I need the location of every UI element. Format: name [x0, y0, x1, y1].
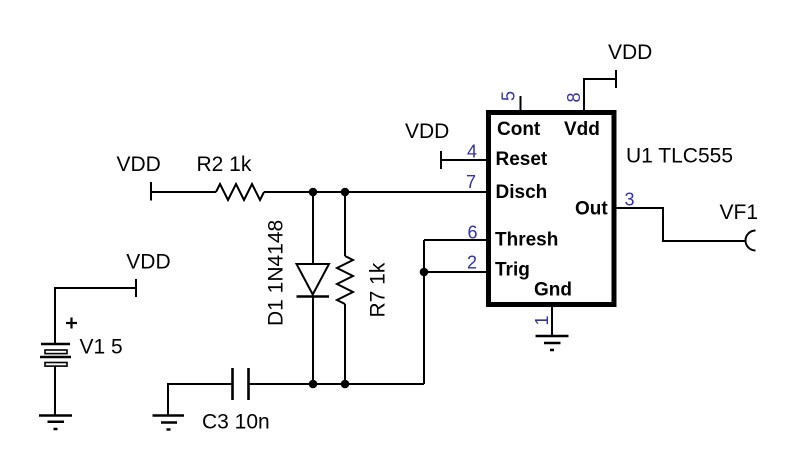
svg-text:Cont: Cont: [497, 119, 541, 140]
power VDD terminal (battery): [126, 251, 170, 298]
wire diode cathode to bottom rail: [312, 297, 314, 385]
svg-text:Trig: Trig: [495, 260, 530, 281]
node junction R7 top: [341, 188, 350, 197]
ground (battery): [39, 416, 72, 430]
power VDD terminal (Reset): [405, 120, 449, 169]
svg-text:Vdd: Vdd: [564, 119, 600, 140]
ground (C3): [153, 416, 185, 430]
wire battery bottom to ground: [54, 366, 56, 415]
wire Thresh pin 6: [424, 239, 486, 241]
resistor R7: [337, 256, 390, 318]
node junction Trig: [420, 268, 429, 277]
wire to diode anode: [312, 192, 314, 264]
svg-text:1: 1: [532, 315, 552, 325]
power VDD terminal (left of R2): [117, 153, 161, 201]
wire bottom rail up to Thresh: [423, 240, 425, 384]
svg-text:8: 8: [564, 92, 584, 102]
node junction diode bottom: [309, 380, 318, 389]
svg-text:VDD: VDD: [608, 41, 652, 64]
svg-text:3: 3: [625, 190, 635, 210]
svg-text:C3 10n: C3 10n: [202, 411, 270, 434]
pin 8 stub wire: [584, 79, 616, 112]
svg-text:VDD: VDD: [405, 120, 449, 143]
node junction R7 bottom: [341, 380, 350, 389]
svg-text:V1 5: V1 5: [80, 336, 123, 359]
battery V1: [40, 318, 123, 367]
svg-text:6: 6: [467, 223, 477, 243]
svg-text:U1 TLC555: U1 TLC555: [626, 145, 733, 168]
wire Trig pin 2: [424, 271, 486, 273]
pin 1 stub wire: [551, 305, 553, 335]
svg-text:Disch: Disch: [496, 182, 548, 203]
capacitor C3: [202, 368, 270, 434]
wire Reset pin 4: [441, 159, 486, 161]
wire battery top to VDD tick: [55, 288, 136, 344]
wire VDD tick to R2: [151, 191, 216, 193]
svg-text:R7 1k: R7 1k: [367, 262, 390, 317]
op-amp U1 TLC555 box: [489, 113, 734, 305]
svg-text:4: 4: [467, 142, 477, 162]
wire R7 bottom to bottom rail: [344, 304, 346, 384]
svg-text:5: 5: [499, 91, 519, 101]
pin 5 stub wire: [520, 96, 522, 112]
resistor R2: [197, 153, 265, 200]
wire Out pin 3 to probe: [616, 208, 746, 241]
diode D1 1N4148: [265, 220, 330, 326]
svg-text:Reset: Reset: [496, 149, 548, 170]
svg-text:D1 1N4148: D1 1N4148: [265, 220, 288, 326]
svg-text:VF1: VF1: [720, 201, 759, 224]
wire C3 ground to left plate: [168, 384, 233, 415]
svg-text:R2 1k: R2 1k: [197, 153, 252, 176]
node junction diode top: [309, 188, 318, 197]
wire R2 to IC Disch pin 7: [264, 191, 486, 193]
wire to R7 top: [344, 192, 346, 256]
svg-text:Out: Out: [575, 199, 608, 220]
svg-text:Thresh: Thresh: [495, 230, 558, 251]
probe VF1: [720, 201, 759, 251]
power VDD terminal (pin 8): [608, 41, 652, 88]
ground (pin 1): [536, 336, 569, 350]
svg-text:VDD: VDD: [117, 153, 161, 176]
svg-text:Gnd: Gnd: [534, 280, 572, 301]
wire C3 right plate along bottom rail: [249, 383, 425, 385]
svg-text:7: 7: [466, 172, 476, 192]
svg-text:2: 2: [467, 253, 477, 273]
svg-text:VDD: VDD: [126, 251, 170, 274]
